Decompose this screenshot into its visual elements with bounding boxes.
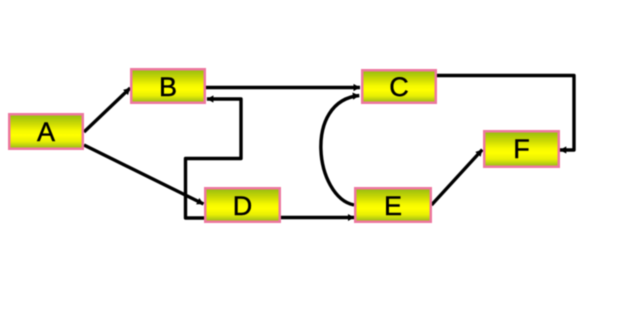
wire C to F (elbow) [437,76,574,151]
node B [131,69,205,103]
node F [484,131,559,167]
wire D to E [281,216,354,219]
wire A to B [84,88,130,132]
svg-text:F: F [513,134,530,164]
wire A to D [84,145,204,204]
svg-text:C: C [389,72,409,102]
node E [355,188,431,222]
wire E to C (curve) [321,96,359,206]
wire B to C [206,86,360,89]
wire E to F [432,150,483,205]
svg-text:E: E [384,191,402,221]
wire D to B (elbow) [186,99,242,218]
node D [205,188,280,222]
node A [9,114,83,149]
node C [362,70,436,103]
svg-text:B: B [159,72,177,102]
svg-text:D: D [233,191,253,221]
svg-text:A: A [37,117,55,147]
